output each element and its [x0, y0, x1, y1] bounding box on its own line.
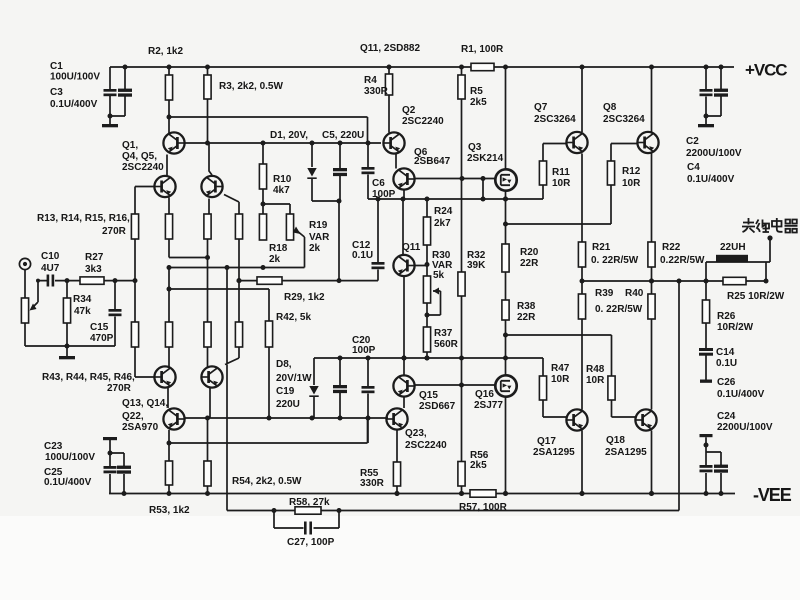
svg-text:Q13, Q14,: Q13, Q14,: [122, 398, 168, 409]
svg-text:10R: 10R: [622, 178, 641, 189]
svg-text:270R: 270R: [102, 226, 127, 237]
svg-text:C24: C24: [717, 411, 736, 422]
svg-text:22R: 22R: [520, 258, 539, 269]
svg-text:0.22R/5W: 0.22R/5W: [660, 255, 705, 266]
svg-text:0.1U: 0.1U: [352, 250, 373, 261]
svg-text:4U7: 4U7: [41, 263, 60, 274]
svg-text:R37: R37: [434, 328, 453, 339]
svg-text:100U/100V: 100U/100V: [45, 452, 95, 463]
svg-text:R39: R39: [595, 288, 614, 299]
svg-text:D8,: D8,: [276, 359, 292, 370]
svg-text:Q17: Q17: [537, 436, 556, 447]
svg-text:0.1U/400V: 0.1U/400V: [687, 174, 735, 185]
svg-text:2SA1295: 2SA1295: [605, 447, 647, 458]
svg-text:10R: 10R: [586, 375, 605, 386]
svg-text:R40: R40: [625, 288, 644, 299]
svg-text:2SK214: 2SK214: [467, 153, 504, 164]
svg-text:2SC3264: 2SC3264: [534, 114, 576, 125]
svg-text:330R: 330R: [360, 478, 385, 489]
svg-text:Q4, Q5,: Q4, Q5,: [122, 151, 157, 162]
svg-text:Q1,: Q1,: [122, 140, 138, 151]
svg-text:R20: R20: [520, 247, 539, 258]
svg-text:Q2: Q2: [402, 105, 416, 116]
svg-text:Q11: Q11: [402, 242, 421, 253]
svg-text:22R: 22R: [517, 312, 536, 323]
svg-text:4k7: 4k7: [273, 185, 290, 196]
svg-text:VAR: VAR: [309, 232, 330, 243]
svg-text:2SA1295: 2SA1295: [533, 447, 575, 458]
svg-text:2SC3264: 2SC3264: [603, 114, 645, 125]
svg-text:10R: 10R: [551, 374, 570, 385]
svg-text:100P: 100P: [352, 345, 376, 356]
svg-text:C5, 220U: C5, 220U: [322, 130, 364, 141]
svg-text:R53, 1k2: R53, 1k2: [149, 505, 190, 516]
svg-text:R19: R19: [309, 220, 328, 231]
svg-text:C1: C1: [50, 61, 63, 72]
svg-text:2200U/100V: 2200U/100V: [717, 422, 773, 433]
svg-text:2k5: 2k5: [470, 460, 487, 471]
svg-text:R29, 1k2: R29, 1k2: [284, 292, 325, 303]
svg-text:R54, 2k2, 0.5W: R54, 2k2, 0.5W: [232, 476, 302, 487]
svg-text:R12: R12: [622, 166, 641, 177]
svg-text:R4: R4: [364, 75, 377, 86]
svg-text:20V/1W: 20V/1W: [276, 373, 312, 384]
svg-text:R34: R34: [73, 294, 92, 305]
svg-text:560R: 560R: [434, 339, 459, 350]
svg-text:2k: 2k: [269, 254, 281, 265]
svg-text:R5: R5: [470, 86, 483, 97]
svg-text:R58, 27k: R58, 27k: [289, 497, 330, 508]
svg-text:R38: R38: [517, 301, 536, 312]
svg-text:R18: R18: [269, 243, 288, 254]
svg-text:R2, 1k2: R2, 1k2: [148, 46, 183, 57]
svg-text:Q11, 2SD882: Q11, 2SD882: [360, 43, 420, 54]
svg-text:2k: 2k: [309, 243, 321, 254]
svg-text:R1, 100R: R1, 100R: [461, 44, 504, 55]
svg-text:0.1U: 0.1U: [716, 358, 737, 369]
svg-text:C3: C3: [50, 87, 63, 98]
svg-text:0.1U/400V: 0.1U/400V: [717, 389, 765, 400]
svg-text:270R: 270R: [107, 383, 132, 394]
svg-text:2k5: 2k5: [470, 97, 487, 108]
svg-text:D1, 20V,: D1, 20V,: [270, 130, 308, 141]
svg-text:Q22,: Q22,: [122, 411, 144, 422]
svg-text:0.1U/400V: 0.1U/400V: [44, 477, 92, 488]
svg-text:R47: R47: [551, 363, 570, 374]
svg-text:Q3: Q3: [468, 142, 482, 153]
svg-text:100P: 100P: [372, 189, 396, 200]
svg-text:Q18: Q18: [606, 435, 625, 446]
svg-text:R13, R14, R15, R16,: R13, R14, R15, R16,: [37, 213, 130, 224]
svg-text:2SC2240: 2SC2240: [122, 162, 164, 173]
svg-text:+VCC: +VCC: [745, 61, 787, 80]
svg-text:2SC2240: 2SC2240: [402, 116, 444, 127]
svg-text:330R: 330R: [364, 86, 389, 97]
svg-text:Q7: Q7: [534, 102, 548, 113]
svg-text:R42, 5k: R42, 5k: [276, 312, 311, 323]
svg-text:Q8: Q8: [603, 102, 617, 113]
svg-text:R24: R24: [434, 206, 453, 217]
svg-text:0. 22R/5W: 0. 22R/5W: [591, 255, 639, 266]
svg-text:-VEE: -VEE: [753, 485, 792, 505]
svg-text:R48: R48: [586, 364, 605, 375]
svg-text:C4: C4: [687, 162, 700, 173]
svg-text:C2: C2: [686, 136, 699, 147]
svg-text:5k: 5k: [433, 270, 445, 281]
svg-text:10R: 10R: [552, 178, 571, 189]
svg-text:R25 10R/2W: R25 10R/2W: [727, 291, 785, 302]
svg-text:Q15: Q15: [419, 390, 438, 401]
svg-text:2SJ77: 2SJ77: [474, 400, 503, 411]
svg-text:R10: R10: [273, 174, 292, 185]
svg-text:0. 22R/5W: 0. 22R/5W: [595, 304, 643, 315]
svg-text:C10: C10: [41, 251, 60, 262]
svg-text:C23: C23: [44, 441, 63, 452]
svg-text:3k3: 3k3: [85, 264, 102, 275]
svg-text:100U/100V: 100U/100V: [50, 72, 100, 83]
svg-text:R26: R26: [717, 311, 736, 322]
svg-text:R27: R27: [85, 252, 104, 263]
svg-text:10R/2W: 10R/2W: [717, 322, 754, 333]
svg-text:2SD667: 2SD667: [419, 401, 456, 412]
svg-text:R3, 2k2, 0.5W: R3, 2k2, 0.5W: [219, 81, 283, 92]
svg-text:220U: 220U: [276, 399, 300, 410]
svg-text:2SC2240: 2SC2240: [405, 440, 447, 451]
svg-text:2200U/100V: 2200U/100V: [686, 148, 742, 159]
svg-text:C27, 100P: C27, 100P: [287, 537, 335, 548]
svg-text:47k: 47k: [74, 306, 91, 317]
svg-text:C26: C26: [717, 377, 736, 388]
svg-text:R21: R21: [592, 242, 611, 253]
svg-text:22UH: 22UH: [720, 242, 746, 253]
svg-text:R57, 100R: R57, 100R: [459, 502, 508, 513]
svg-text:2SA970: 2SA970: [122, 422, 159, 433]
svg-text:C19: C19: [276, 386, 295, 397]
svg-text:C6: C6: [372, 178, 385, 189]
svg-text:39K: 39K: [467, 260, 486, 271]
svg-text:470P: 470P: [90, 333, 114, 344]
svg-text:C15: C15: [90, 322, 109, 333]
svg-text:2SB647: 2SB647: [414, 156, 451, 167]
svg-text:R43, R44, R45, R46,: R43, R44, R45, R46,: [42, 372, 135, 383]
svg-text:C14: C14: [716, 347, 735, 358]
svg-text:Q23,: Q23,: [405, 428, 427, 439]
svg-text:R22: R22: [662, 242, 681, 253]
svg-text:Q16: Q16: [475, 389, 494, 400]
svg-text:0.1U/400V: 0.1U/400V: [50, 99, 98, 110]
svg-text:2k7: 2k7: [434, 218, 451, 229]
svg-text:R11: R11: [552, 167, 570, 178]
